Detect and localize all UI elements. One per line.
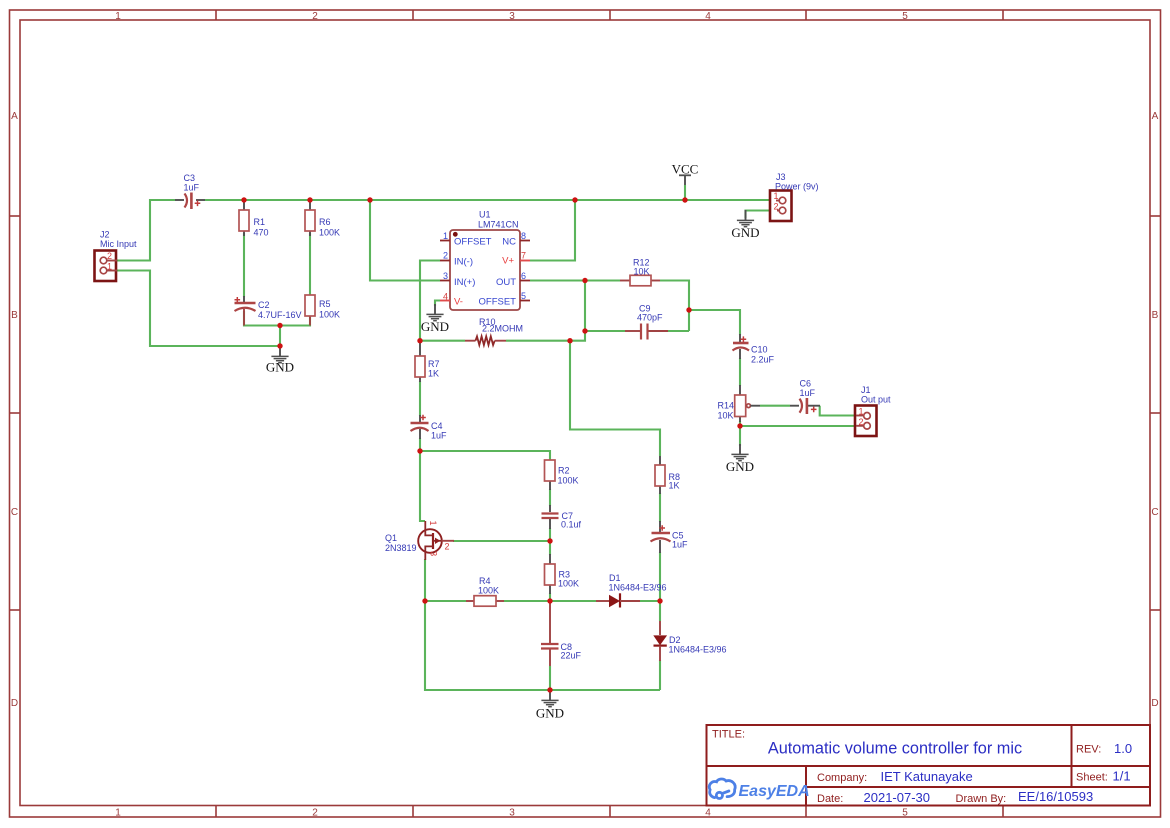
connector J3 [770,191,792,222]
svg-text:R1: R1 [254,217,266,227]
svg-text:J3: J3 [776,172,786,182]
wire C9 right to corner [668,330,689,332]
wire J2 pin1 to ground rail [117,271,280,347]
wire R1 bottom to C2 [243,233,245,297]
svg-text:Company:: Company: [817,772,867,784]
diode D1 [596,593,640,607]
svg-text:100K: 100K [558,579,579,589]
resistor R3 [545,554,556,594]
wire R3 bottom to node [549,593,551,601]
wire IN(+) from top rail [370,200,440,281]
svg-text:C3: C3 [184,173,196,183]
wire C7 bottom to gate node [549,528,551,555]
svg-text:REV:: REV: [1076,744,1101,756]
svg-text:1.0: 1.0 [1114,741,1132,756]
wire R4 left from node [425,600,466,602]
svg-text:D: D [11,698,18,709]
svg-text:IN(-): IN(-) [454,257,473,268]
wire J3 pin2 to ground [746,211,778,219]
svg-text:R5: R5 [319,299,331,309]
wire R10 right to node [506,340,570,342]
svg-text:5: 5 [902,808,908,819]
wire OUT to R12 [530,279,620,281]
svg-text:1: 1 [443,231,448,241]
resistor R6 [305,200,315,236]
svg-text:1K: 1K [428,369,439,379]
wire jog from C9 node to R10 node [570,331,585,341]
svg-text:R2: R2 [558,466,570,476]
wire R10 left lead from R7 node [420,340,465,342]
svg-text:8: 8 [521,231,526,241]
svg-text:2.2uF: 2.2uF [751,355,775,365]
svg-text:1/1: 1/1 [1113,769,1131,784]
svg-text:1: 1 [428,520,438,525]
capacitor C9 [625,324,668,340]
resistor R4 [466,596,504,607]
svg-text:6: 6 [521,271,526,281]
svg-text:2021-07-30: 2021-07-30 [864,790,931,805]
frame side ticks [10,216,1161,610]
svg-text:Out put: Out put [861,395,891,405]
svg-text:2: 2 [774,202,779,212]
frame row letters right [1151,111,1158,709]
diode D2 [653,621,667,661]
svg-text:TITLE:: TITLE: [712,729,745,741]
wire Q1 source down [424,559,426,601]
resistor R1 [239,200,249,236]
ground GND (J3) [737,210,754,227]
wire R14 wiper to C6 [760,405,790,407]
svg-text:IET Katunayake: IET Katunayake [881,769,973,784]
svg-text:Mic Input: Mic Input [100,239,137,249]
svg-text:V-: V- [454,297,463,308]
svg-text:C10: C10 [751,345,768,355]
svg-text:D1: D1 [609,573,621,583]
svg-text:100K: 100K [558,476,579,486]
connector J1 [855,406,877,437]
svg-text:J1: J1 [861,385,871,395]
wire R4 right to node [504,600,550,602]
connector J2 [95,251,118,282]
svg-text:C2: C2 [258,300,270,310]
title block frame [707,725,1151,806]
svg-text:R6: R6 [319,217,331,227]
svg-text:R14: R14 [718,401,735,411]
svg-text:NC: NC [502,237,516,248]
frame bottom ticks [216,806,1003,818]
EasyEDA logo [709,779,735,798]
capacitor C7 [542,505,559,529]
potentiometer R14 [735,385,760,422]
svg-text:OFFSET: OFFSET [454,237,492,248]
frame column numbers top [115,11,908,22]
wire D2 top stub [659,601,661,621]
svg-text:GND: GND [536,706,564,721]
op-amp U1 [440,230,530,310]
svg-text:1N6484-E3/96: 1N6484-E3/96 [669,645,727,655]
ground GND (bottom) [541,690,558,707]
wire C10 bottom to R14 [739,358,741,386]
svg-text:1K: 1K [669,481,680,491]
svg-text:1N6484-E3/96: 1N6484-E3/96 [609,583,667,593]
ground GND (V-) [426,301,443,321]
wire R2 bottom to C7 [549,489,551,506]
wire IN(-) to R7 node [420,261,440,341]
svg-text:1uF: 1uF [431,431,447,441]
wire Q1 gate to C7 node [453,540,550,542]
svg-text:2.2MOHM: 2.2MOHM [482,324,523,334]
svg-text:4: 4 [705,808,711,819]
svg-text:3: 3 [509,808,515,819]
svg-text:1: 1 [107,262,112,272]
svg-text:B: B [11,310,18,321]
svg-text:1uF: 1uF [672,540,688,550]
svg-text:3: 3 [443,271,448,281]
svg-text:470pF: 470pF [637,313,663,323]
svg-text:C4: C4 [431,421,443,431]
svg-text:4: 4 [705,11,711,22]
wire C8 bottom stub [549,666,551,690]
svg-text:1uF: 1uF [184,183,200,193]
transistor Q1 [418,521,454,560]
resistor R2 [545,460,556,490]
svg-text:2: 2 [107,251,112,261]
svg-text:A: A [1152,111,1159,122]
svg-text:R7: R7 [428,359,440,369]
capacitor C3 [175,193,205,210]
frame row letters left [11,111,18,709]
wire OUT junction down to C9 [585,281,625,332]
svg-text:5: 5 [521,291,526,301]
wire C5 to D-node [659,552,661,601]
svg-text:VCC: VCC [672,162,699,177]
svg-text:470: 470 [254,228,269,238]
svg-text:2: 2 [443,251,448,261]
svg-text:5: 5 [902,11,908,22]
wire branch to C10 [689,310,740,335]
wire R6 bottom to R5 top [309,233,311,295]
svg-text:3: 3 [429,551,439,556]
wire top rail from C3 to J3 [205,199,776,201]
svg-text:C: C [11,507,18,518]
svg-text:100K: 100K [478,586,499,596]
svg-text:OFFSET: OFFSET [479,297,517,308]
svg-text:Power (9v): Power (9v) [775,182,819,192]
wire D2 bottom stub [659,660,661,690]
svg-text:Automatic volume controller fo: Automatic volume controller for mic [768,740,1022,758]
svg-text:100K: 100K [319,228,340,238]
svg-text:J2: J2 [100,230,110,240]
svg-text:OUT: OUT [496,277,516,288]
wire left of C3 down to J2 pin2 [117,200,175,261]
svg-text:2: 2 [312,808,318,819]
wire D1 right to node [640,600,660,602]
svg-text:1: 1 [774,191,779,201]
wire VCC stub [684,185,686,200]
svg-text:GND: GND [726,459,754,474]
svg-text:Drawn By:: Drawn By: [956,793,1007,805]
svg-text:EasyEDA: EasyEDA [739,783,810,800]
wire R8 to C5 [659,493,661,522]
ground GND (input) [271,346,288,363]
svg-text:1: 1 [115,11,121,22]
svg-text:2N3819: 2N3819 [385,543,417,553]
svg-text:GND: GND [421,319,449,334]
resistor R5 [305,295,315,326]
capacitor C10 [733,334,750,359]
wire R12 right corner down [660,281,689,332]
wire node down and right to R8 [570,341,660,456]
net label VCC [679,175,691,185]
svg-text:GND: GND [731,225,759,240]
svg-text:1: 1 [859,406,864,416]
svg-text:4: 4 [443,292,448,302]
resistor R7 [415,341,425,382]
wire C2/R5 bottoms [244,311,310,326]
capacitor C2 [235,296,256,326]
svg-text:2: 2 [445,542,450,552]
svg-text:EE/16/10593: EE/16/10593 [1018,789,1093,804]
wire Q1 node to drain jog [420,451,425,521]
wire node to D1 [550,600,596,602]
svg-text:0.1uf: 0.1uf [561,520,582,530]
svg-text:3: 3 [509,11,515,22]
wire left drop to bottom rail [425,601,660,690]
svg-text:10K: 10K [634,267,650,277]
capacitor C4 [411,415,429,439]
wire C4 bottom to Q1 node [419,438,421,451]
svg-text:Date:: Date: [817,793,843,805]
svg-text:Sheet:: Sheet: [1076,772,1108,784]
svg-text:C: C [1151,507,1158,518]
wire Q1 node to R2 top [420,451,550,460]
ground GND (R14) [731,444,748,461]
svg-text:R4: R4 [479,576,491,586]
svg-text:GND: GND [266,360,294,375]
svg-text:D: D [1151,698,1158,709]
capacitor C5 [651,521,671,553]
svg-text:A: A [11,111,18,122]
svg-text:2: 2 [859,417,864,427]
svg-text:LM741CN: LM741CN [478,220,519,230]
wire C6 right to J1 pin1 [820,406,860,416]
svg-text:100K: 100K [319,310,340,320]
wire R14 bottom node to J1 pin2 [740,421,858,426]
capacitor C6 [790,398,820,414]
svg-text:IN(+): IN(+) [454,277,475,288]
svg-text:V+: V+ [502,256,514,267]
frame column numbers bottom [115,808,908,819]
wire R14 node to ground [739,426,741,446]
wire V+ riser [530,200,575,261]
svg-text:D2: D2 [669,635,681,645]
svg-text:4.7UF-16V: 4.7UF-16V [258,310,302,320]
svg-text:10K: 10K [718,411,734,421]
svg-text:7: 7 [521,251,526,261]
wire C2 junction drop [279,326,281,347]
svg-text:Q1: Q1 [385,533,397,543]
svg-text:C6: C6 [800,379,812,389]
resistor R8 [655,456,665,494]
wire R7 bottom to C4 [419,381,421,416]
svg-text:22uF: 22uF [561,651,582,661]
svg-text:1: 1 [115,808,121,819]
svg-text:2: 2 [312,11,318,22]
svg-text:B: B [1152,310,1159,321]
resistor R10 zigzag [465,336,506,345]
svg-text:1uF: 1uF [800,388,816,398]
svg-text:U1: U1 [479,210,491,220]
resistor R12 [620,275,660,286]
frame top ticks [216,10,1003,20]
capacitor C8 [541,601,559,666]
